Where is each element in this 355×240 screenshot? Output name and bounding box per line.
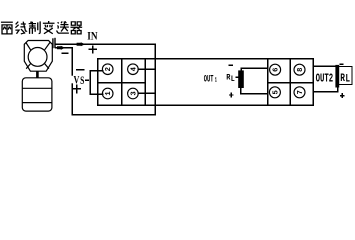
svg-text:L: L [345,73,350,86]
svg-text:1: 1 [215,76,217,83]
svg-text:7: 7 [297,90,305,94]
svg-text:OUT2: OUT2 [316,72,334,85]
svg-text:L: L [231,75,235,84]
svg-text:R: R [340,72,345,85]
svg-text:S: S [80,75,84,88]
svg-text:OUT: OUT [204,72,214,85]
svg-text:4: 4 [130,66,138,71]
svg-text:2: 2 [105,67,113,71]
svg-text:3: 3 [130,91,138,95]
svg-text:8: 8 [297,68,305,72]
svg-text:6: 6 [273,68,281,72]
svg-text:1: 1 [105,91,113,96]
svg-text:IN: IN [87,31,98,43]
svg-text:5: 5 [272,90,280,94]
